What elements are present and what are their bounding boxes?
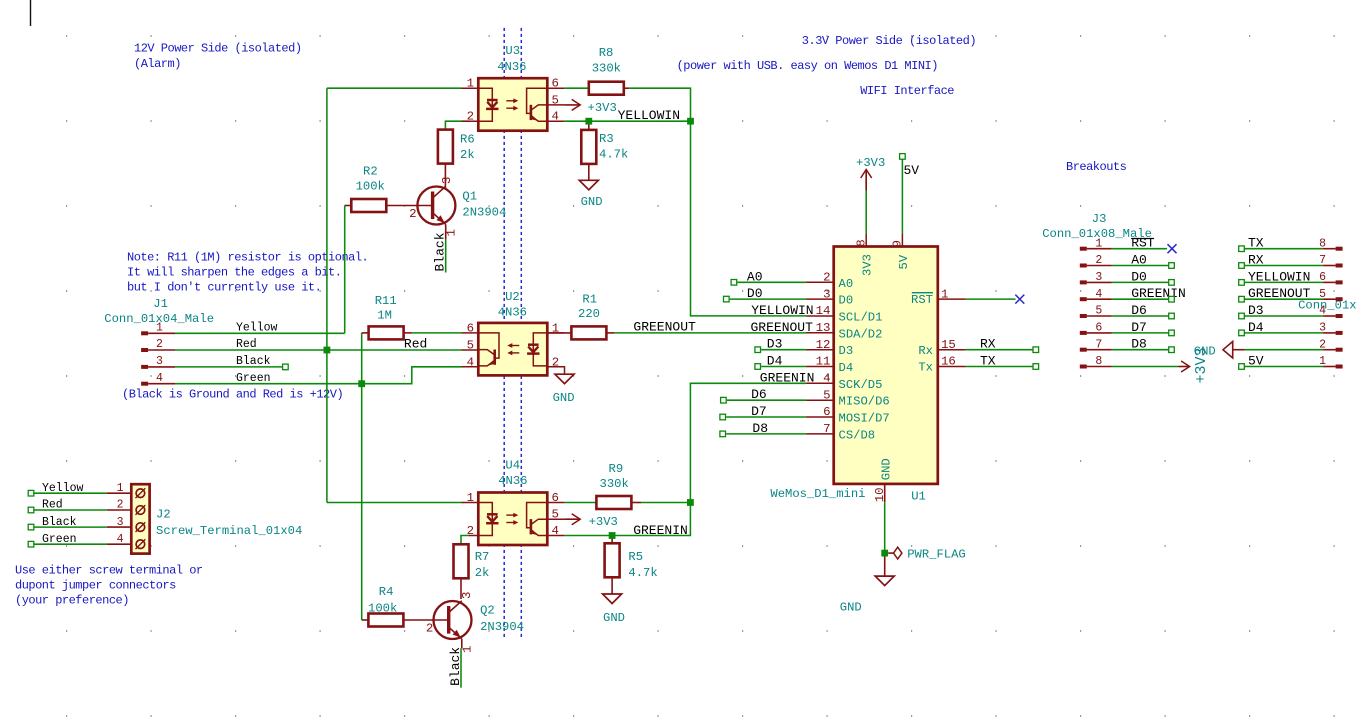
wire J2 pin 1 [34, 492, 107, 494]
svg-text:3V3: 3V3 [861, 254, 875, 276]
power 5V square at U1 [900, 154, 906, 160]
J2 screw pin 2 [136, 506, 145, 515]
wire J3 pin 6 [1112, 332, 1169, 334]
junction +12V at J1 red row [324, 347, 331, 354]
svg-text:1: 1 [467, 491, 474, 505]
svg-text:J1: J1 [153, 297, 168, 311]
J2 screw pin 4 [136, 540, 145, 549]
resistor R1 220 [547, 332, 571, 334]
wire GREENOUT R1 to U1 [614, 332, 806, 334]
dangling end square TX [1033, 364, 1039, 370]
U4 pin stubs [462, 503, 565, 536]
wire right connector row 7 [1245, 366, 1324, 368]
svg-text:Red: Red [236, 338, 257, 351]
svg-text:6: 6 [467, 321, 474, 335]
wire J3 pin1 RST [1112, 248, 1167, 250]
svg-text:Black: Black [236, 355, 271, 368]
svg-text:100k: 100k [356, 180, 385, 194]
svg-text:U4: U4 [505, 459, 520, 473]
J1 pin 2 [141, 348, 148, 352]
U1 top pin stubs [866, 234, 902, 247]
svg-text:Yellow: Yellow [42, 482, 84, 495]
svg-text:Use either screw terminal or: Use either screw terminal or [15, 564, 203, 578]
dangling end square [1169, 296, 1175, 302]
wire right connector pin2 GND [1245, 349, 1324, 351]
svg-text:2N3904: 2N3904 [480, 620, 524, 634]
wire J1 pin4 Green row [175, 367, 462, 384]
wire J3 pin8 to +3V3 [1112, 366, 1179, 368]
wire U1 GND pin [884, 502, 886, 556]
wire J2 pin 2 [34, 509, 107, 511]
svg-text:GREENIN: GREENIN [1131, 286, 1186, 301]
svg-text:U2: U2 [505, 290, 520, 304]
svg-text:D4: D4 [767, 354, 783, 369]
svg-text:GND: GND [1194, 344, 1216, 358]
svg-text:D8: D8 [752, 421, 768, 436]
junction green row at R11 [358, 380, 365, 387]
transistor Q2 2N3904 [434, 601, 472, 639]
dangling end square RX [1033, 347, 1039, 353]
junction YELLOWIN at R3 [585, 118, 592, 125]
svg-text:2: 2 [117, 499, 124, 512]
svg-text:PWR_FLAG: PWR_FLAG [907, 548, 966, 562]
IC U1 WeMos_D1_mini [834, 247, 938, 484]
svg-text:Green: Green [236, 372, 271, 385]
svg-text:1: 1 [156, 322, 163, 335]
svg-text:D6: D6 [751, 387, 767, 402]
svg-text:5: 5 [1319, 288, 1326, 301]
wire U1 D0 [730, 298, 806, 300]
svg-text:GREENIN: GREENIN [760, 370, 815, 385]
wire +12V to U4 pin1 [327, 502, 462, 504]
dangling end square [1239, 280, 1245, 286]
svg-text:Breakouts: Breakouts [1066, 160, 1127, 174]
right connector pin 4 [1336, 314, 1343, 318]
svg-text:R1: R1 [582, 292, 597, 306]
dangling end square [1169, 263, 1175, 269]
dangling end square [1239, 263, 1245, 269]
svg-text:7: 7 [823, 422, 830, 436]
svg-text:D6: D6 [1131, 303, 1147, 318]
dangling end square Black row [283, 364, 289, 370]
svg-text:Black: Black [433, 232, 448, 271]
svg-text:TX: TX [1248, 236, 1264, 251]
svg-text:6: 6 [552, 491, 559, 505]
svg-text:It will sharpen the edges a bi: It will sharpen the edges a bit. [127, 266, 341, 280]
svg-text:11: 11 [816, 355, 831, 369]
svg-text:J3: J3 [1092, 212, 1107, 226]
junction GND at PWR_FLAG [881, 550, 888, 557]
svg-text:2k: 2k [460, 148, 475, 162]
right connector pin 3 [1336, 331, 1343, 335]
svg-text:1: 1 [1095, 237, 1102, 250]
wire R9 to GREENIN vertical [641, 502, 690, 504]
wire Q1 emitter Black [445, 239, 447, 272]
svg-text:1: 1 [941, 287, 948, 301]
svg-text:4.7k: 4.7k [628, 566, 657, 580]
svg-text:8: 8 [1319, 237, 1326, 250]
svg-text:8: 8 [1095, 355, 1102, 368]
wire R8 to YELLOWIN vertical [629, 88, 806, 316]
RST overline at J3 [1131, 238, 1154, 240]
svg-text:R9: R9 [609, 462, 624, 476]
svg-text:100k: 100k [368, 602, 397, 616]
Q2 emitter pin [461, 639, 463, 648]
svg-text:D4: D4 [1248, 320, 1264, 335]
svg-text:A0: A0 [747, 269, 763, 284]
opto-isolator U4 [478, 493, 547, 546]
svg-text:Black: Black [42, 516, 77, 529]
J1 pin 3 [141, 365, 148, 369]
svg-text:6: 6 [823, 405, 830, 419]
svg-text:R2: R2 [363, 164, 378, 178]
ground symbol at U2 [555, 374, 574, 384]
svg-text:3: 3 [117, 516, 124, 529]
svg-text:D0: D0 [747, 286, 763, 301]
svg-text:D7: D7 [751, 404, 767, 419]
resistor R6 2k [444, 164, 446, 188]
wire U1 D8 [726, 433, 806, 435]
svg-text:U3: U3 [505, 44, 520, 58]
wire U1 5V pin [901, 160, 903, 234]
wire GREENIN U4 pin4 to U1 [564, 383, 806, 535]
power +3V3 at J3 pin8 [1179, 366, 1190, 368]
right connector pin 2 [1336, 348, 1343, 352]
svg-text:4.7k: 4.7k [599, 148, 628, 162]
svg-text:YELLOWIN: YELLOWIN [618, 108, 680, 123]
wire U1 A0 [737, 281, 806, 283]
wire U1 D3 [761, 349, 806, 351]
svg-text:dupont jumper connectors: dupont jumper connectors [15, 579, 176, 593]
wire J1 pin2 Red row to U2 pin5 [175, 349, 462, 351]
svg-text:GREENOUT: GREENOUT [633, 320, 696, 335]
svg-text:3: 3 [823, 287, 830, 301]
svg-text:1: 1 [117, 482, 124, 495]
wire U4 pin2 to R7 [461, 536, 469, 545]
svg-text:Green: Green [42, 533, 77, 546]
transistor Q1 2N3904 [417, 187, 455, 225]
svg-text:Rx: Rx [918, 344, 933, 358]
svg-text:Q1: Q1 [462, 190, 477, 204]
svg-text:WeMos_D1_mini: WeMos_D1_mini [770, 487, 865, 501]
svg-text:5: 5 [552, 93, 559, 107]
svg-text:2: 2 [1319, 338, 1326, 351]
svg-text:4: 4 [1095, 288, 1102, 301]
svg-text:2k: 2k [475, 566, 490, 580]
opto-isolator U3 [478, 78, 547, 131]
svg-text:RX: RX [1248, 253, 1264, 268]
wire U3 pin4 YELLOWIN [564, 120, 690, 122]
svg-text:2N3904: 2N3904 [462, 206, 506, 220]
wire U3 pin2 to R6 [445, 121, 469, 129]
dangling end square D7 [720, 414, 726, 420]
svg-text:R6: R6 [460, 133, 475, 147]
power +3V3 at U4 pin5 [564, 518, 580, 520]
dangling end square [1169, 313, 1175, 319]
ground symbol at R3 [579, 180, 598, 190]
svg-text:+3V3: +3V3 [588, 101, 617, 115]
wire U1 D6 [727, 399, 806, 401]
resistor R8 330k [624, 87, 630, 89]
svg-text:but I don't currently use it.: but I don't currently use it. [127, 281, 321, 295]
svg-text:SCK/D5: SCK/D5 [839, 378, 883, 392]
isolation boundary dashed line left [503, 28, 505, 639]
svg-text:SCL/D1: SCL/D1 [839, 311, 883, 325]
svg-text:R5: R5 [628, 550, 643, 564]
svg-text:1: 1 [467, 77, 474, 91]
svg-text:2: 2 [409, 207, 416, 221]
J1 pin 4 [141, 382, 148, 386]
dangling end square [1239, 246, 1245, 252]
svg-text:(your preference): (your preference) [15, 594, 129, 608]
svg-text:4: 4 [467, 355, 474, 369]
dangling end square D4 [755, 364, 761, 370]
svg-text:2: 2 [156, 338, 163, 351]
U2 pin stubs [462, 333, 565, 367]
wire J2 pin 3 [34, 526, 107, 528]
dangling end square D8 [720, 431, 726, 437]
svg-text:330k: 330k [592, 62, 621, 76]
svg-text:D3: D3 [839, 344, 854, 358]
dangling end square [1239, 364, 1245, 370]
resistor R11 1M [362, 332, 369, 334]
svg-text:3: 3 [440, 177, 454, 184]
svg-text:(Black is Ground and Red is +1: (Black is Ground and Red is +12V) [122, 388, 343, 402]
svg-text:GND: GND [603, 611, 625, 625]
svg-text:GND: GND [581, 195, 603, 209]
wire U3 pin6 to R8 [564, 87, 589, 89]
wire +12V to U3 pin1 [327, 87, 462, 89]
wire right connector row 1 [1245, 265, 1324, 267]
wire R11 to U2 pin6 [412, 332, 462, 334]
svg-text:2: 2 [467, 110, 474, 124]
svg-text:12V Power Side (isolated): 12V Power Side (isolated) [134, 42, 302, 56]
svg-text:2: 2 [426, 622, 433, 636]
wire Q2 emitter Black [460, 648, 462, 688]
svg-text:CS/D8: CS/D8 [839, 428, 876, 442]
dangling end square [1239, 330, 1245, 336]
wire Yellow up to R2 [344, 206, 346, 334]
svg-text:8: 8 [854, 239, 868, 246]
svg-text:TX: TX [980, 354, 996, 369]
resistor R3 4.7k [588, 121, 590, 130]
svg-text:5V: 5V [897, 254, 911, 269]
J3 pin 3 [1080, 280, 1087, 284]
wire U1 3V3 pin to +3V3 [865, 173, 867, 234]
J3 pin 2 [1080, 264, 1087, 268]
U1 left pin stubs [806, 282, 834, 434]
svg-text:4: 4 [823, 372, 830, 386]
svg-text:2: 2 [1095, 254, 1102, 267]
Q1 emitter pin [445, 224, 447, 239]
svg-text:WIFI Interface: WIFI Interface [860, 84, 954, 98]
wire J3 pin 2 [1112, 265, 1169, 267]
wire U1 D7 [726, 416, 806, 418]
resistor R4 100k [362, 619, 368, 621]
J3 pin 4 [1080, 297, 1087, 301]
svg-text:4: 4 [117, 533, 124, 546]
svg-text:5: 5 [1095, 305, 1102, 318]
svg-text:A0: A0 [1131, 253, 1147, 268]
svg-text:(power with USB. easy on Wemos: (power with USB. easy on Wemos D1 MINI) [677, 59, 938, 73]
svg-text:D7: D7 [1131, 320, 1147, 335]
power GND at U1 and PWR_FLAG [884, 557, 886, 577]
no-connect X at J3 pin1 [1168, 244, 1177, 253]
svg-text:D3: D3 [1248, 303, 1264, 318]
J3 pin 5 [1080, 314, 1087, 318]
svg-text:R3: R3 [599, 132, 614, 146]
svg-text:Red: Red [42, 499, 63, 512]
dangling end square D0 [724, 296, 730, 302]
resistor R9 330k [632, 502, 641, 504]
svg-text:4: 4 [552, 110, 559, 124]
U3 pin stubs [462, 88, 565, 121]
svg-text:4: 4 [156, 372, 163, 385]
wire right connector row 2 [1245, 281, 1324, 283]
svg-text:3: 3 [156, 355, 163, 368]
power +3V3 at U1 [861, 170, 872, 179]
power GND at right connector [1223, 342, 1233, 359]
svg-text:2: 2 [467, 524, 474, 538]
wire Rx [966, 349, 1033, 351]
svg-text:13: 13 [816, 321, 831, 335]
resistor R2 100k [345, 205, 352, 207]
svg-text:3: 3 [1095, 271, 1102, 284]
svg-text:9: 9 [891, 240, 905, 247]
svg-text:GND: GND [879, 458, 893, 480]
svg-text:Yellow: Yellow [236, 322, 278, 335]
wire J2 pin 4 [34, 543, 107, 545]
wire +12V vertical up to U3 pin1 [326, 88, 328, 350]
svg-text:5V: 5V [1248, 354, 1264, 369]
svg-text:R8: R8 [599, 46, 614, 60]
svg-text:330k: 330k [600, 477, 629, 491]
wire Tx [966, 366, 1033, 368]
sheet border line [30, 0, 32, 26]
svg-text:Q2: Q2 [480, 604, 495, 618]
svg-text:Red: Red [404, 337, 427, 352]
dangling end square [1169, 330, 1175, 336]
power flag PWR_FLAG [888, 552, 893, 554]
junction GREENIN at R5 [609, 532, 616, 539]
power +3V3 at U3 pin5 [564, 104, 580, 106]
svg-text:GND: GND [553, 391, 575, 405]
wire U1 D4 [761, 366, 806, 368]
wire Green row down to R4 [361, 384, 363, 620]
dangling end square [1169, 347, 1175, 353]
svg-text:Tx: Tx [918, 361, 933, 375]
dangling end square A0 [731, 280, 737, 286]
svg-text:6: 6 [552, 77, 559, 91]
svg-text:3.3V Power Side (isolated): 3.3V Power Side (isolated) [802, 34, 976, 48]
svg-text:4: 4 [552, 524, 559, 538]
svg-text:Screw_Terminal_01x04: Screw_Terminal_01x04 [156, 524, 302, 538]
svg-text:7: 7 [1319, 254, 1326, 267]
svg-text:+3V3: +3V3 [856, 156, 885, 170]
svg-text:2: 2 [823, 271, 830, 285]
svg-text:RST: RST [911, 293, 933, 307]
connector J2 Screw_Terminal_01x04 [131, 484, 149, 553]
svg-text:220: 220 [578, 307, 600, 321]
svg-text:6: 6 [1095, 322, 1102, 335]
right connector pin 1 [1336, 365, 1343, 369]
svg-text:D3: D3 [767, 337, 783, 352]
svg-text:A0: A0 [839, 277, 854, 291]
resistor R5 4.7k [611, 536, 613, 544]
svg-text:GREENOUT: GREENOUT [1248, 286, 1311, 301]
svg-text:(Alarm): (Alarm) [134, 57, 181, 71]
svg-text:5: 5 [552, 508, 559, 522]
J1 pin 1 [141, 331, 148, 335]
svg-text:+3V3: +3V3 [589, 515, 618, 529]
svg-text:4N36: 4N36 [498, 305, 527, 319]
dangling end square [1239, 296, 1245, 302]
svg-text:YELLOWIN: YELLOWIN [1248, 269, 1310, 284]
svg-text:5: 5 [823, 388, 830, 402]
wire right connector row 5 [1245, 332, 1324, 334]
svg-text:7: 7 [1095, 338, 1102, 351]
dangling end square [1169, 280, 1175, 286]
U1 pin 10 GND [884, 484, 886, 502]
svg-text:15: 15 [941, 338, 956, 352]
svg-text:5V: 5V [904, 163, 920, 178]
wire U4 pin6 to R9 [564, 502, 596, 504]
wire right connector row 0 [1245, 248, 1324, 250]
J3 pin 1 [1080, 247, 1087, 251]
svg-text:1M: 1M [377, 308, 392, 322]
svg-text:4: 4 [1319, 305, 1326, 318]
right connector pin 6 [1336, 280, 1343, 284]
svg-text:12: 12 [816, 338, 831, 352]
svg-text:D0: D0 [1131, 269, 1147, 284]
wire RST to no-connect [966, 298, 1016, 300]
svg-text:16: 16 [941, 355, 956, 369]
opto-isolator U2 [478, 323, 547, 376]
svg-text:10: 10 [873, 487, 887, 502]
svg-text:YELLOWIN: YELLOWIN [751, 303, 813, 318]
wire J1 pin3 Black row dangling [175, 366, 285, 368]
svg-text:6: 6 [1319, 271, 1326, 284]
svg-text:4N36: 4N36 [498, 474, 527, 488]
svg-text:Note: R11 (1M) resistor is opt: Note: R11 (1M) resistor is optional. [127, 251, 368, 265]
svg-text:RX: RX [980, 337, 996, 352]
junction YELLOWIN at R8 [687, 118, 694, 125]
J2 screw pin 3 [136, 523, 145, 532]
svg-text:SDA/D2: SDA/D2 [839, 327, 883, 341]
U1 right pin stubs [938, 299, 966, 366]
wire J3 pin 7 [1112, 349, 1169, 351]
svg-text:Black: Black [448, 647, 463, 686]
J3 pin 6 [1080, 331, 1087, 335]
wire J3 pin 4 [1112, 298, 1169, 300]
wire J3 pin 3 [1112, 281, 1169, 283]
svg-text:GREENOUT: GREENOUT [751, 320, 814, 335]
dangling end square D6 [721, 397, 727, 403]
svg-text:GREENIN: GREENIN [633, 523, 688, 538]
svg-text:J2: J2 [156, 508, 171, 522]
J3 pin 8 [1080, 365, 1087, 369]
wire Green row up to R11 [361, 333, 363, 384]
svg-text:5: 5 [467, 339, 474, 353]
wire J1 pin1 Yellow row [175, 332, 345, 334]
isolation boundary dashed line right [520, 28, 522, 639]
svg-text:1: 1 [1319, 355, 1326, 368]
wire right connector row 4 [1245, 315, 1324, 317]
svg-text:MOSI/D7: MOSI/D7 [839, 412, 890, 426]
right connector pin 7 [1336, 264, 1343, 268]
right connector pin 5 [1336, 297, 1343, 301]
svg-text:GND: GND [840, 600, 862, 614]
